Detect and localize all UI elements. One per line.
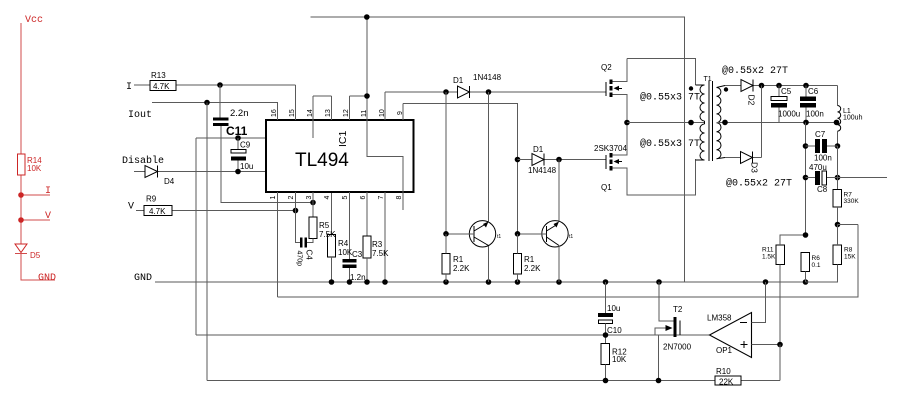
svg-text:330K: 330K: [844, 198, 860, 205]
svg-text:9: 9: [397, 111, 404, 115]
svg-text:C8: C8: [817, 185, 828, 194]
svg-text:13: 13: [325, 109, 332, 117]
svg-text:@0.55x3 7T: @0.55x3 7T: [640, 92, 700, 104]
svg-text:470p: 470p: [296, 251, 303, 267]
svg-text:I: I: [45, 186, 51, 197]
svg-text:15K: 15K: [844, 254, 856, 261]
svg-text:2N7000: 2N7000: [663, 343, 692, 352]
svg-text:R10: R10: [716, 367, 731, 376]
svg-text:R11: R11: [762, 247, 774, 254]
svg-text:D5: D5: [30, 251, 41, 260]
svg-text:I: I: [126, 82, 132, 93]
svg-text:10u: 10u: [607, 304, 620, 313]
svg-text:3: 3: [306, 196, 313, 200]
svg-text:1000u: 1000u: [778, 110, 800, 119]
svg-text:@0.55x2 27T: @0.55x2 27T: [722, 65, 788, 77]
svg-text:1: 1: [270, 196, 277, 200]
svg-text:Vcc: Vcc: [25, 15, 43, 26]
svg-text:10K: 10K: [338, 248, 353, 257]
svg-text:R4: R4: [338, 239, 349, 248]
svg-text:D4: D4: [164, 177, 175, 186]
svg-text:TL494: TL494: [295, 150, 349, 171]
svg-text:V: V: [128, 202, 134, 213]
svg-text:D1: D1: [533, 145, 544, 154]
svg-text:R1: R1: [524, 255, 535, 264]
svg-text:100uh: 100uh: [843, 115, 863, 122]
svg-text:Disable: Disable: [122, 155, 164, 167]
svg-text:4: 4: [324, 196, 331, 200]
svg-text:D3: D3: [750, 162, 760, 173]
svg-text:GND: GND: [38, 273, 56, 284]
svg-text:2.2K: 2.2K: [524, 264, 541, 273]
svg-text:R8: R8: [844, 247, 853, 254]
svg-text:2.2K: 2.2K: [453, 264, 470, 273]
svg-text:22K: 22K: [719, 378, 734, 387]
svg-text:7.5K: 7.5K: [319, 230, 336, 239]
svg-text:6: 6: [360, 196, 367, 200]
svg-text:C6: C6: [808, 87, 819, 96]
svg-text:15: 15: [289, 109, 296, 117]
svg-text:Iout: Iout: [128, 110, 152, 121]
svg-text:@0.55x3 7T: @0.55x3 7T: [640, 138, 700, 150]
svg-text:8: 8: [396, 196, 403, 200]
svg-text:C3: C3: [352, 250, 363, 259]
svg-text:12: 12: [343, 109, 350, 117]
svg-text:T1: T1: [704, 76, 712, 83]
svg-text:C10: C10: [607, 326, 622, 335]
svg-text:10K: 10K: [612, 355, 627, 364]
svg-text:1N4148: 1N4148: [473, 73, 502, 82]
svg-text:Q1: Q1: [601, 183, 612, 192]
svg-text:R6: R6: [812, 255, 821, 262]
svg-text:C7: C7: [815, 130, 826, 139]
svg-text:R9: R9: [146, 195, 157, 204]
svg-text:Q2: Q2: [601, 63, 612, 72]
svg-text:2.2n: 2.2n: [230, 108, 249, 119]
svg-text:11: 11: [361, 110, 368, 117]
svg-text:4.7K: 4.7K: [149, 207, 166, 216]
svg-text:t1: t1: [569, 234, 573, 240]
svg-text:T2: T2: [673, 305, 683, 314]
svg-text:R13: R13: [151, 71, 166, 80]
svg-text:LM358: LM358: [707, 314, 732, 323]
svg-text:10u: 10u: [240, 162, 253, 171]
svg-text:D1: D1: [453, 76, 464, 85]
svg-text:2: 2: [288, 196, 295, 200]
svg-text:t1: t1: [497, 234, 501, 240]
svg-text:OP1: OP1: [716, 346, 733, 355]
svg-text:IC1: IC1: [337, 131, 349, 148]
svg-text:10: 10: [379, 109, 386, 117]
svg-text:10K: 10K: [27, 164, 42, 173]
svg-text:C4: C4: [305, 250, 314, 261]
svg-text:GND: GND: [134, 273, 152, 284]
svg-text:2SK3704: 2SK3704: [594, 144, 627, 153]
svg-text:100n: 100n: [814, 154, 832, 163]
svg-text:1.2n: 1.2n: [350, 273, 366, 282]
svg-text:7: 7: [378, 196, 385, 200]
svg-text:1.5K: 1.5K: [762, 254, 776, 261]
svg-text:D2: D2: [747, 95, 757, 106]
svg-text:V: V: [45, 211, 51, 222]
svg-text:0.1: 0.1: [812, 262, 821, 269]
svg-text:7.5K: 7.5K: [372, 249, 389, 258]
svg-text:R1: R1: [453, 255, 464, 264]
svg-text:100n: 100n: [806, 110, 824, 119]
svg-text:16: 16: [271, 109, 278, 117]
svg-text:@0.55x2 27T: @0.55x2 27T: [726, 178, 792, 190]
svg-text:4.7K: 4.7K: [153, 82, 170, 91]
svg-text:C5: C5: [781, 87, 792, 96]
svg-text:470u: 470u: [809, 163, 827, 172]
svg-text:C9: C9: [240, 141, 251, 150]
svg-text:5: 5: [342, 196, 349, 200]
svg-text:R5: R5: [319, 221, 330, 230]
svg-text:14: 14: [307, 109, 314, 117]
svg-text:R3: R3: [372, 240, 383, 249]
svg-text:1N4148: 1N4148: [528, 166, 557, 175]
